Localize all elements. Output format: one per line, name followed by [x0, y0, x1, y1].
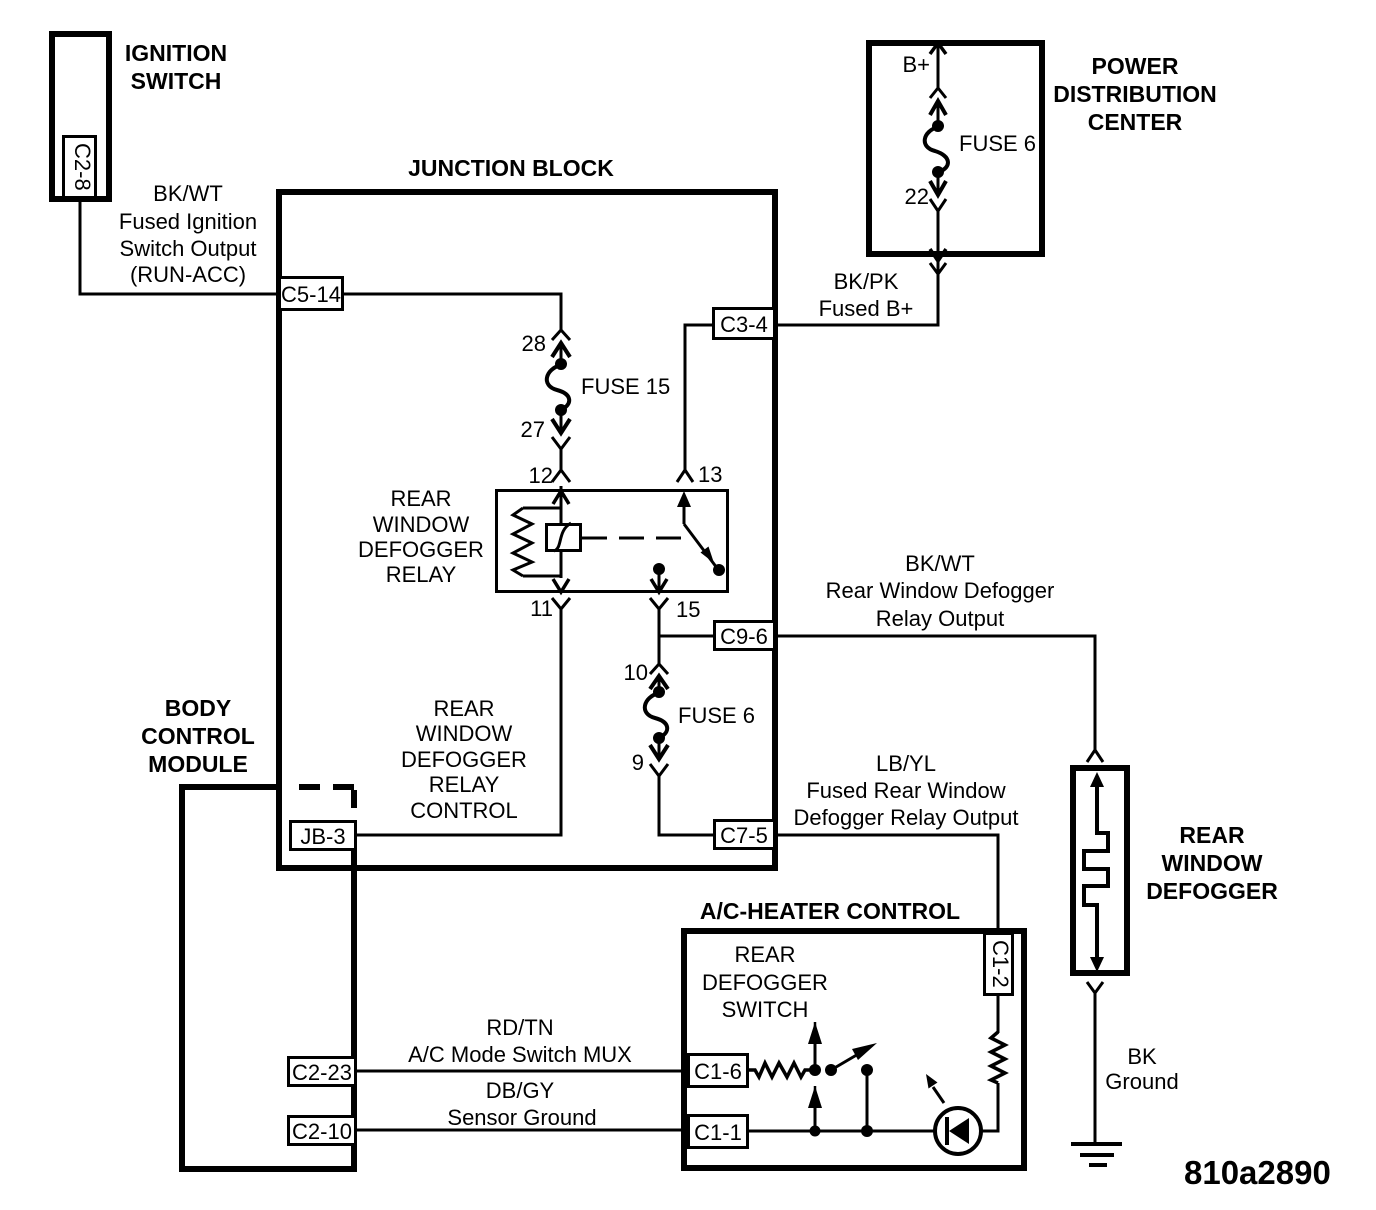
svg-text:A/C-HEATER CONTROL: A/C-HEATER CONTROL: [700, 898, 960, 924]
connector C7-5 box: [715, 821, 775, 849]
wire ignition C2-8 to junction block C5-14: [80, 199, 279, 294]
label BK/WT Fused Ignition Switch Output (RUN-ACC): [119, 181, 257, 287]
connector C2-23 box: [289, 1058, 356, 1086]
svg-text:FUSE 6: FUSE 6: [678, 703, 755, 728]
relay R1 rear window defogger relay box: [497, 491, 728, 592]
label REAR WINDOW DEFOGGER RELAY CONTROL: [401, 696, 527, 823]
relay coil resistor zigzag: [513, 508, 532, 576]
svg-text:15: 15: [676, 597, 700, 622]
connector C9-6 box: [715, 622, 775, 650]
svg-text:13: 13: [698, 462, 722, 487]
body control module dashed right edge top: [351, 790, 357, 818]
wire resistor to LED: [981, 1083, 998, 1131]
pin label 28: [522, 331, 546, 356]
svg-text:MODULE: MODULE: [148, 751, 248, 777]
label FUSE 6 PDC: [959, 131, 1036, 156]
svg-text:POWER: POWER: [1092, 53, 1179, 79]
pin 13 terminal: [677, 450, 693, 482]
wire relay pin 11 to JB-3: [357, 609, 561, 835]
label B+: [902, 52, 930, 77]
switch movable arm: [825, 1043, 877, 1076]
label BK/PK Fused B+: [819, 269, 914, 321]
svg-text:C9-6: C9-6: [720, 624, 768, 649]
wire C9-6 to rear window defogger: [775, 636, 1095, 750]
junction block box: [279, 192, 775, 868]
svg-text:BODY: BODY: [165, 695, 231, 721]
rear window defogger terminal bottom: [1087, 982, 1103, 993]
wire C3-4 to relay pin 13: [685, 325, 712, 452]
svg-text:CONTROL: CONTROL: [410, 798, 518, 823]
pin 11 terminal: [552, 598, 570, 609]
svg-text:Defogger Relay Output: Defogger Relay Output: [793, 805, 1018, 830]
ignition switch box: [52, 34, 109, 199]
switch contact dot A: [808, 1022, 822, 1076]
wire defogger to ground: [1094, 993, 1097, 1144]
connector C2-10 box: [289, 1117, 356, 1145]
label A/C-HEATER CONTROL: [700, 898, 960, 924]
rear window defogger terminal top: [1087, 750, 1103, 762]
svg-text:C2-8: C2-8: [70, 143, 95, 191]
svg-text:DEFOGGER: DEFOGGER: [401, 747, 527, 772]
label FUSE 6 junction block: [678, 703, 755, 728]
wire PDC to C3-4: [776, 274, 938, 325]
ground symbol: [1071, 1144, 1122, 1165]
svg-text:(RUN-ACC): (RUN-ACC): [130, 262, 246, 287]
pin label 9: [632, 750, 644, 775]
wire C1-1 to LED: [748, 1130, 935, 1133]
pin 15 terminal: [650, 598, 668, 609]
wire pin 15 junction to C9-6: [659, 635, 713, 638]
fuse 6 PDC: [925, 88, 948, 211]
label JUNCTION BLOCK: [408, 155, 614, 181]
svg-text:REAR: REAR: [390, 486, 451, 511]
relay switch arm: [677, 491, 725, 576]
svg-text:C2-10: C2-10: [292, 1119, 352, 1144]
svg-text:CONTROL: CONTROL: [141, 723, 255, 749]
connector C2-8 box: [64, 137, 96, 200]
wire fuse 15 to relay pin 12: [560, 449, 563, 470]
svg-text:BK: BK: [1127, 1044, 1157, 1069]
svg-text:Rear Window Defogger: Rear Window Defogger: [826, 578, 1055, 603]
svg-text:DISTRIBUTION: DISTRIBUTION: [1053, 81, 1217, 107]
body control module dashed top edge: [299, 784, 354, 790]
wire relay pin 15 down: [658, 609, 661, 664]
pin label 12: [529, 463, 553, 488]
label REAR DEFOGGER SWITCH: [702, 942, 828, 1022]
pin label 22: [905, 184, 929, 209]
svg-text:RELAY: RELAY: [386, 562, 457, 587]
svg-text:12: 12: [529, 463, 553, 488]
label DB/GY Sensor Ground: [447, 1078, 596, 1130]
label REAR WINDOW DEFOGGER RELAY: [358, 486, 484, 587]
svg-text:BK/WT: BK/WT: [905, 551, 975, 576]
svg-text:DB/GY: DB/GY: [486, 1078, 555, 1103]
pin label 11: [530, 596, 553, 621]
svg-text:DEFOGGER: DEFOGGER: [1146, 878, 1278, 904]
LED arrow: [926, 1074, 944, 1103]
wire C1-2 to resistor: [997, 994, 1000, 1033]
svg-text:REAR: REAR: [734, 942, 795, 967]
switch contact dot C with wire to C1-1 line: [861, 1064, 873, 1137]
svg-text:C3-4: C3-4: [720, 312, 768, 337]
svg-text:11: 11: [530, 596, 553, 621]
svg-text:Relay Output: Relay Output: [876, 606, 1004, 631]
svg-text:BK/PK: BK/PK: [834, 269, 899, 294]
svg-text:Fused B+: Fused B+: [819, 296, 914, 321]
wire C5-14 to fuse 15: [343, 294, 561, 330]
svg-text:CENTER: CENTER: [1088, 109, 1183, 135]
pin 12 terminal: [552, 470, 570, 482]
svg-text:9: 9: [632, 750, 644, 775]
label BK/WT Rear Window Defogger Relay Output: [826, 551, 1055, 631]
label LB/YL Fused Rear Window Defogger Relay Output: [793, 751, 1018, 830]
relay coil box: [547, 523, 581, 551]
connector C1-1 box: [689, 1116, 748, 1148]
label BK Ground: [1105, 1044, 1178, 1094]
svg-text:C2-23: C2-23: [292, 1060, 352, 1085]
pin label 15: [676, 597, 700, 622]
relay pin 11 arrow inside: [553, 579, 569, 592]
pin label 10: [624, 660, 648, 685]
label BODY CONTROL MODULE: [141, 695, 255, 777]
svg-text:JUNCTION BLOCK: JUNCTION BLOCK: [408, 155, 614, 181]
svg-text:BK/WT: BK/WT: [153, 181, 223, 206]
svg-text:C5-14: C5-14: [281, 282, 341, 307]
svg-text:WINDOW: WINDOW: [373, 512, 470, 537]
svg-text:LB/YL: LB/YL: [876, 751, 936, 776]
figure number 810a2890: [1184, 1154, 1331, 1191]
fuse 6 junction block: [645, 664, 668, 776]
svg-text:DEFOGGER: DEFOGGER: [702, 970, 828, 995]
connector C1-6 box: [689, 1055, 748, 1087]
svg-text:C1-1: C1-1: [694, 1120, 742, 1145]
junction arrow on C1-1 wire: [808, 1086, 822, 1137]
PDC output terminal: [930, 249, 946, 274]
wire C7-5 to A/C-heater control C1-2: [775, 835, 998, 932]
wire C2-23 to C1-6: [356, 1070, 684, 1073]
label FUSE 15: [581, 374, 670, 399]
wire fuse 6 to C7-5: [659, 776, 713, 835]
svg-text:Sensor Ground: Sensor Ground: [447, 1105, 596, 1130]
A/C-heater control box: [684, 931, 1024, 1168]
connector C3-4 box: [714, 309, 775, 339]
svg-text:27: 27: [521, 417, 545, 442]
rear window defogger box: [1073, 768, 1127, 973]
connector C1-2 box: [985, 934, 1014, 995]
LED indicator lamp: [935, 1108, 981, 1154]
pin label 27: [521, 417, 545, 442]
relay pin 12 arrow inside: [553, 486, 569, 578]
svg-text:JB-3: JB-3: [300, 824, 345, 849]
label REAR WINDOW DEFOGGER: [1146, 822, 1278, 904]
svg-text:DEFOGGER: DEFOGGER: [358, 537, 484, 562]
svg-text:Fused Rear Window: Fused Rear Window: [806, 778, 1005, 803]
relay dashed actuator link: [582, 537, 686, 540]
wire C2-10 to C1-1: [356, 1129, 684, 1132]
wire fuse 6 to PDC bottom edge: [937, 211, 940, 254]
svg-text:WINDOW: WINDOW: [416, 721, 513, 746]
svg-text:SWITCH: SWITCH: [722, 997, 809, 1022]
relay coil bottom wire: [523, 575, 561, 578]
svg-text:C1-6: C1-6: [694, 1059, 742, 1084]
svg-text:FUSE 15: FUSE 15: [581, 374, 670, 399]
svg-text:REAR: REAR: [433, 696, 494, 721]
connector JB-3 box: [291, 822, 356, 850]
power distribution center box: [869, 43, 1042, 254]
svg-text:28: 28: [522, 331, 546, 356]
defogger heating element: [1084, 772, 1108, 972]
connector C5-14 box: [280, 278, 343, 310]
svg-text:A/C Mode Switch MUX: A/C Mode Switch MUX: [408, 1042, 632, 1067]
svg-text:REAR: REAR: [1179, 822, 1245, 848]
svg-text:C1-2: C1-2: [988, 940, 1013, 988]
relay coil top wire: [523, 507, 561, 510]
svg-text:B+: B+: [902, 52, 930, 77]
svg-text:810a2890: 810a2890: [1184, 1154, 1331, 1191]
svg-text:Fused Ignition: Fused Ignition: [119, 209, 257, 234]
svg-text:Switch Output: Switch Output: [120, 236, 257, 261]
svg-text:Ground: Ground: [1105, 1069, 1178, 1094]
body control module box: [182, 787, 354, 1169]
label RD/TN A/C Mode Switch MUX: [408, 1015, 632, 1067]
fuse 15: [547, 330, 570, 449]
label POWER DISTRIBUTION CENTER: [1053, 53, 1217, 135]
svg-text:10: 10: [624, 660, 648, 685]
svg-text:RD/TN: RD/TN: [486, 1015, 553, 1040]
svg-text:FUSE 6: FUSE 6: [959, 131, 1036, 156]
node B+ arrow in PDC: [930, 43, 946, 88]
label IGNITION SWITCH: [125, 40, 227, 94]
svg-text:IGNITION: IGNITION: [125, 40, 227, 66]
switch input resistor horizontal: [748, 1063, 811, 1077]
svg-text:WINDOW: WINDOW: [1162, 850, 1263, 876]
relay common contact dot: [651, 563, 667, 592]
pin label 13: [698, 462, 722, 487]
svg-text:RELAY: RELAY: [429, 772, 500, 797]
resistor in A/C control: [991, 1032, 1005, 1083]
svg-text:SWITCH: SWITCH: [131, 68, 222, 94]
svg-text:22: 22: [905, 184, 929, 209]
svg-text:C7-5: C7-5: [720, 823, 768, 848]
